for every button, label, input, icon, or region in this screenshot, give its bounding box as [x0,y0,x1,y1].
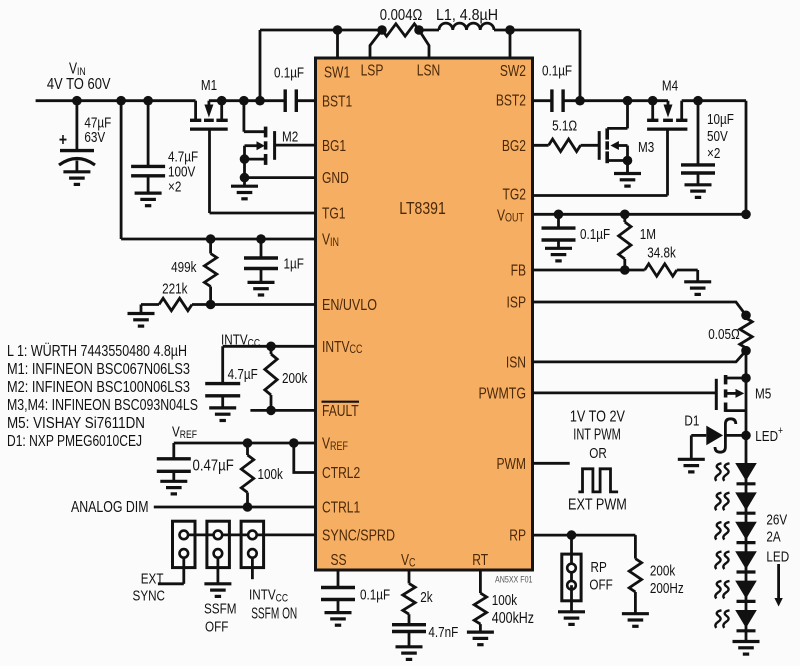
svg-text:100k: 100k [492,592,518,609]
svg-text:4V TO 60V: 4V TO 60V [47,75,111,93]
svg-text:ISP: ISP [507,293,526,311]
svg-text:EN/UVLO: EN/UVLO [322,296,377,314]
svg-text:M1: M1 [201,77,217,94]
svg-text:0.1µF: 0.1µF [274,64,304,81]
svg-text:0.004Ω: 0.004Ω [380,6,423,24]
svg-text:RT: RT [472,551,488,569]
svg-text:M2: INFINEON BSC100N06LS3: M2: INFINEON BSC100N06LS3 [7,378,190,396]
svg-text:M1: INFINEON BSC067N06LS3: M1: INFINEON BSC067N06LS3 [7,360,190,378]
svg-text:SW1: SW1 [324,63,350,81]
svg-text:ANALOG DIM: ANALOG DIM [71,498,149,516]
svg-text:LSN: LSN [417,61,440,79]
svg-text:M3,M4: INFINEON BSC093N04LS: M3,M4: INFINEON BSC093N04LS [7,396,198,414]
svg-text:D1: D1 [684,412,699,429]
svg-text:RP: RP [509,526,526,544]
svg-text:AN5XX F01: AN5XX F01 [495,573,533,584]
svg-text:34.8k: 34.8k [647,244,676,261]
svg-text:×2: ×2 [168,178,181,195]
svg-text:BG2: BG2 [502,136,526,154]
svg-text:L 1: WÜRTH 7443550480 4.8µH: L 1: WÜRTH 7443550480 4.8µH [7,340,187,359]
svg-text:BST1: BST1 [322,92,352,110]
svg-text:SW2: SW2 [500,62,526,80]
svg-text:SS: SS [331,551,347,569]
svg-text:L1, 4.8µH: L1, 4.8µH [436,6,498,24]
svg-text:499k: 499k [171,259,197,276]
svg-text:FB: FB [511,261,526,279]
svg-text:CTRL1: CTRL1 [322,498,360,516]
svg-text:PWMTG: PWMTG [478,384,526,402]
svg-text:200Hz: 200Hz [650,580,684,597]
svg-text:SYNC: SYNC [133,587,166,604]
svg-text:LSP: LSP [361,61,384,79]
svg-text:0.1µF: 0.1µF [580,226,610,243]
svg-text:OFF: OFF [589,576,612,593]
svg-text:400kHz: 400kHz [492,609,534,627]
svg-text:63V: 63V [84,128,105,145]
svg-text:BST2: BST2 [496,91,526,109]
svg-text:4.7nF: 4.7nF [428,624,458,641]
svg-text:PWM: PWM [496,454,526,472]
svg-text:M5: M5 [755,385,771,402]
svg-text:221k: 221k [162,280,188,297]
svg-text:GND: GND [322,169,349,187]
svg-text:CTRL2: CTRL2 [322,464,360,482]
svg-text:50V: 50V [707,128,728,145]
svg-text:100k: 100k [258,465,284,482]
svg-text:+: + [59,130,67,150]
svg-text:M2: M2 [282,128,298,145]
svg-text:OFF: OFF [205,618,228,635]
svg-text:TG1: TG1 [322,204,346,222]
svg-text:BG1: BG1 [322,136,346,154]
svg-text:1M: 1M [640,226,656,243]
svg-text:200k: 200k [650,562,676,579]
svg-text:200k: 200k [282,370,308,387]
svg-text:2A: 2A [766,528,780,545]
svg-text:FAULT: FAULT [322,401,359,419]
svg-text:SYNC/SPRD: SYNC/SPRD [322,526,395,544]
svg-text:LED: LED [766,548,789,565]
svg-text:1µF: 1µF [284,255,304,272]
svg-text:×2: ×2 [707,145,720,162]
svg-text:0.05Ω: 0.05Ω [708,326,739,343]
svg-text:ISN: ISN [506,353,526,371]
svg-text:26V: 26V [766,511,787,528]
svg-text:M4: M4 [662,77,679,94]
svg-text:SSFM ON: SSFM ON [251,604,297,622]
svg-text:5.1Ω: 5.1Ω [552,117,577,134]
svg-text:0.47µF: 0.47µF [193,456,234,474]
svg-text:D1: NXP PMEG6010CEJ: D1: NXP PMEG6010CEJ [7,432,142,450]
svg-text:RP: RP [591,559,607,576]
svg-text:0.1µF: 0.1µF [360,586,390,603]
svg-text:2k: 2k [420,589,433,606]
svg-text:M3: M3 [638,139,654,156]
svg-text:M5: VISHAY Si7611DN: M5: VISHAY Si7611DN [7,414,145,432]
svg-text:4.7µF: 4.7µF [228,366,258,383]
svg-text:1V TO 2V: 1V TO 2V [570,407,626,425]
svg-text:10µF: 10µF [707,111,734,128]
svg-text:LT8391: LT8391 [399,198,446,218]
svg-text:OR: OR [589,445,607,462]
svg-text:INT PWM: INT PWM [573,425,621,443]
svg-text:EXT: EXT [141,570,164,587]
svg-text:SSFM: SSFM [204,600,236,617]
svg-text:EXT PWM: EXT PWM [568,495,627,513]
svg-text:TG2: TG2 [503,185,527,203]
svg-text:0.1µF: 0.1µF [542,62,572,79]
